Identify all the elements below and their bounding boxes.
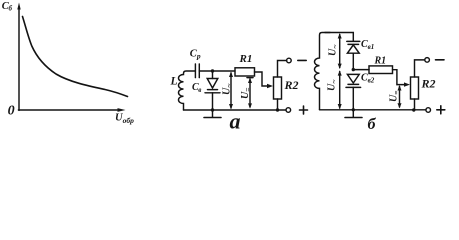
node middle junction (б) bbox=[352, 68, 355, 71]
wire R2 bottom (a) bbox=[277, 99, 279, 110]
terminal minus (a) bbox=[287, 58, 292, 63]
node R2-bottom (б) bbox=[412, 108, 415, 111]
wiper arrow (a) bbox=[267, 84, 273, 88]
wire R2 bottom (б) bbox=[414, 99, 416, 110]
arrow U~ upper (б) bbox=[338, 33, 342, 69]
inductor L bbox=[178, 71, 195, 110]
potentiometer R2 (a) bbox=[274, 77, 282, 99]
svg-text:Cв: Cв bbox=[192, 82, 201, 94]
curve Cб(Uобр) bbox=[23, 17, 128, 97]
svg-text:Cв2: Cв2 bbox=[361, 73, 375, 85]
svg-text:Cр: Cр bbox=[190, 48, 201, 60]
svg-text:R1: R1 bbox=[374, 56, 387, 67]
svg-text:а: а bbox=[230, 108, 241, 131]
terminal plus (б) bbox=[426, 108, 431, 113]
node varicap-bottom (a) bbox=[211, 108, 214, 111]
ground (б) bbox=[345, 110, 362, 118]
svg-text:R1: R1 bbox=[239, 53, 253, 65]
label minus (б) bbox=[436, 59, 445, 61]
wire top rail a bbox=[199, 70, 235, 72]
resistor R1 (б) bbox=[369, 66, 393, 74]
svg-text:U=: U= bbox=[240, 87, 252, 99]
node R2-bottom (a) bbox=[276, 108, 279, 111]
varicap Cв2 bbox=[346, 74, 361, 109]
arrow U= (a) bbox=[247, 78, 253, 109]
resistor R1 (a) bbox=[235, 68, 255, 76]
label plus (a) bbox=[300, 106, 308, 114]
node junction a-top bbox=[211, 69, 214, 72]
wire middle to R1 (б) bbox=[353, 69, 369, 71]
axis Uобр horizontal bbox=[18, 108, 125, 112]
svg-text:Cв1: Cв1 bbox=[361, 39, 374, 51]
wire bottom rail a bbox=[184, 109, 287, 111]
svg-text:б: б bbox=[368, 116, 377, 131]
potentiometer R2 (б) bbox=[411, 77, 419, 99]
arrow U= (б) bbox=[398, 85, 402, 108]
varicap Cв1 bbox=[347, 41, 360, 69]
label minus (a) bbox=[298, 59, 306, 61]
wire R1 to wiper (a) bbox=[255, 72, 269, 86]
node varicap-bottom (б) bbox=[352, 108, 355, 111]
varicap Cв bbox=[205, 71, 220, 110]
svg-text:0: 0 bbox=[8, 103, 15, 118]
label plus (б) bbox=[437, 106, 445, 114]
svg-text:U~: U~ bbox=[222, 83, 234, 95]
svg-text:Cб: Cб bbox=[2, 1, 13, 13]
svg-text:U=: U= bbox=[389, 90, 401, 102]
wire R1 to wiper (б) bbox=[393, 70, 406, 85]
arrow U~ lower (б) bbox=[338, 70, 342, 109]
wire top rail б bbox=[325, 33, 353, 42]
svg-text:R2: R2 bbox=[284, 78, 299, 92]
wire R2 top to minus terminal (a) bbox=[278, 61, 287, 78]
svg-text:L: L bbox=[170, 75, 178, 87]
wire R2 top to minus terminal (б) bbox=[415, 60, 425, 77]
capacitor Cр bbox=[195, 64, 199, 78]
svg-text:U~: U~ bbox=[327, 79, 339, 91]
axis Cб vertical bbox=[17, 3, 20, 111]
terminal plus (a) bbox=[286, 108, 291, 113]
svg-text:R2: R2 bbox=[421, 76, 436, 90]
ground (a) bbox=[204, 110, 221, 118]
svg-text:Uобр: Uобр bbox=[115, 113, 134, 126]
inductor L (б) bbox=[314, 33, 330, 110]
terminal minus (б) bbox=[425, 58, 430, 63]
svg-text:U~: U~ bbox=[328, 44, 340, 56]
wiper arrow (б) bbox=[404, 82, 410, 86]
wire bottom rail б bbox=[320, 109, 427, 111]
arrow U~ (a) bbox=[229, 72, 233, 110]
